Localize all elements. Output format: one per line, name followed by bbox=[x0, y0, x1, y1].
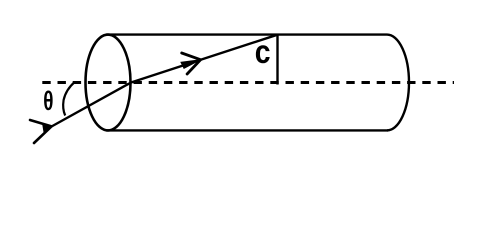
label theta bbox=[43, 86, 53, 116]
refracted ray arrowhead bbox=[181, 53, 201, 74]
entrance face ellipse bbox=[86, 35, 131, 131]
incident ray bbox=[52, 83, 132, 127]
dashed axis bbox=[42, 81, 454, 84]
label c bbox=[255, 33, 271, 71]
cylinder top line bbox=[106, 33, 387, 35]
cylinder bottom line bbox=[106, 129, 388, 131]
refracted ray bbox=[131, 35, 278, 83]
angle arc theta bbox=[63, 82, 75, 116]
svg-text:c: c bbox=[255, 33, 271, 71]
right end cap bbox=[387, 35, 409, 131]
vertical line at c bbox=[276, 35, 278, 85]
svg-text:θ: θ bbox=[43, 86, 53, 116]
incident ray arrowhead bbox=[30, 120, 52, 143]
